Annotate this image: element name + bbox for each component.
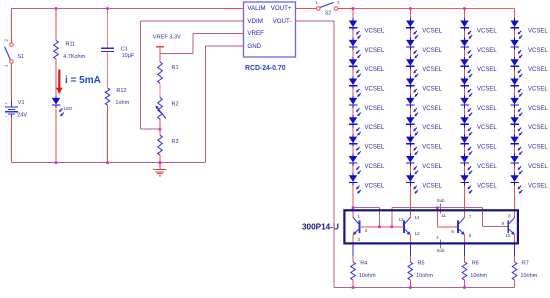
svg-text:VCSEL: VCSEL — [365, 125, 385, 131]
svg-text:VCSEL: VCSEL — [365, 67, 385, 73]
node junction bottom rail LED branch — [55, 161, 58, 164]
label VCSEL D22 — [422, 48, 442, 54]
VCSEL diode D27 — [406, 134, 418, 154]
svg-text:VCSEL: VCSEL — [422, 48, 442, 54]
label VCSEL D44 — [528, 87, 548, 93]
label R7 — [522, 261, 529, 267]
svg-text:VCSEL: VCSEL — [477, 125, 497, 131]
VCSEL diode D31 — [460, 18, 472, 38]
VCSEL diode D24 — [406, 76, 418, 96]
current annotation arrow i — [56, 70, 63, 94]
svg-text:1: 1 — [357, 214, 360, 219]
svg-text:VREF 3.3V: VREF 3.3V — [153, 34, 181, 40]
svg-text:VOUT+: VOUT+ — [271, 5, 292, 12]
label VCSEL D34 — [477, 87, 497, 93]
label VCSEL D26 — [422, 125, 442, 131]
pin number 12 of Q2 — [414, 231, 420, 236]
value label 10ohm R5 — [416, 273, 433, 279]
pin number 9 of Q4 — [502, 221, 505, 226]
VCSEL diode D37 — [460, 134, 472, 154]
wire R3 to bottom rail — [159, 155, 161, 163]
svg-text:S2: S2 — [325, 10, 331, 16]
pin number 2 of S2 — [337, 0, 340, 5]
VCSEL diode D33 — [460, 57, 472, 77]
wire node to R3 — [159, 129, 161, 135]
VCSEL diode D16 — [349, 115, 361, 135]
label S1 — [18, 54, 25, 60]
svg-text:VCSEL: VCSEL — [477, 87, 497, 93]
wire GND net — [206, 46, 238, 163]
label VCSEL D39 — [477, 183, 497, 189]
node junction R2 bottom — [159, 128, 162, 131]
label R5 — [418, 261, 425, 267]
wire S2 to VCSEL rail — [338, 8, 353, 10]
wire S1 to V1 — [11, 63, 13, 103]
wire column3 collector — [464, 208, 466, 218]
VCSEL diode D29 — [406, 173, 418, 193]
wire R6 bottom stub — [464, 280, 466, 288]
pin number 2 of Q1 — [365, 228, 368, 233]
VCSEL diode D21 — [406, 18, 418, 38]
svg-text:LED: LED — [64, 106, 73, 111]
svg-text:13: 13 — [398, 217, 404, 222]
pin stub Sub top pin 11 — [440, 204, 442, 214]
VCSEL diode D49 — [510, 173, 522, 193]
VCSEL diode D23 — [406, 57, 418, 77]
wire VOUT+ to S2 — [302, 8, 317, 10]
value label 10ohm R6 — [470, 273, 487, 279]
svg-text:VCSEL: VCSEL — [422, 164, 442, 170]
wire base rail 1 — [353, 208, 379, 227]
svg-text:GND: GND — [247, 43, 261, 50]
svg-text:VCSEL: VCSEL — [477, 28, 497, 34]
svg-text:VCSEL: VCSEL — [422, 28, 442, 34]
node junction top rail column 2 — [409, 7, 412, 10]
svg-text:10ohm: 10ohm — [416, 273, 433, 279]
wire VCSEL column 1 — [352, 9, 354, 208]
wire base rail 2 — [392, 208, 508, 227]
svg-text:VCSEL: VCSEL — [528, 48, 548, 54]
node junction bottom rail R4 — [352, 286, 355, 289]
label VCSEL D45 — [528, 106, 548, 112]
label LED — [64, 106, 73, 111]
wire R5 top stub — [409, 244, 411, 262]
svg-text:VCSEL: VCSEL — [528, 106, 548, 112]
switch S1 — [5, 43, 14, 64]
LED D1 — [52, 96, 64, 116]
wire R6 top stub — [464, 244, 466, 262]
label VCSEL D17 — [365, 145, 385, 151]
resistor R7 — [512, 262, 517, 280]
node junction base rail Sub — [436, 206, 439, 209]
converter U2 RCD-24-0.70 body — [244, 2, 296, 57]
VCSEL diode D19 — [349, 173, 361, 193]
transistor array U3 300P14-U body — [344, 210, 518, 243]
wire R4 top stub — [352, 244, 354, 262]
VCSEL diode D14 — [349, 76, 361, 96]
label VCSEL D41 — [528, 28, 548, 34]
wire C1 to R12 — [107, 52, 109, 89]
pin stub VOUT+ — [296, 8, 302, 10]
label Sub top — [437, 198, 445, 203]
VCSEL diode D46 — [510, 115, 522, 135]
VCSEL diode D45 — [510, 96, 522, 116]
svg-text:10ohm: 10ohm — [359, 273, 376, 279]
label VCSEL D15 — [365, 106, 385, 112]
label VCSEL D27 — [422, 145, 442, 151]
svg-text:12: 12 — [414, 231, 420, 236]
svg-text:VCSEL: VCSEL — [477, 106, 497, 112]
svg-text:VCSEL: VCSEL — [422, 125, 442, 131]
svg-text:6: 6 — [451, 229, 454, 234]
wire top rail left — [12, 8, 238, 10]
svg-text:R11: R11 — [66, 41, 76, 47]
VCSEL diode D28 — [406, 154, 418, 174]
label VCSEL D25 — [422, 106, 442, 112]
node junction bottom rail R5 — [409, 286, 412, 289]
label VCSEL D29 — [422, 183, 442, 189]
pin name VDIM — [247, 18, 262, 25]
wire R2 to node — [159, 119, 161, 129]
label VCSEL D36 — [477, 125, 497, 131]
pin name VALIM — [247, 5, 265, 12]
svg-text:3: 3 — [357, 237, 360, 242]
svg-text:R6: R6 — [472, 261, 479, 267]
label R11 — [66, 41, 76, 47]
label VCSEL D11 — [365, 28, 385, 34]
label VCSEL D19 — [365, 183, 385, 189]
wire Q2 emitter down — [409, 235, 411, 245]
VCSEL diode D48 — [510, 154, 522, 174]
pin stub VOUT- — [296, 20, 302, 22]
pin number 2 of S1 — [4, 38, 9, 41]
pin number 7 of Q3 — [469, 215, 472, 220]
annotation text i = 5mA — [65, 75, 101, 86]
value label 24V — [17, 112, 27, 118]
svg-text:10ohm: 10ohm — [520, 273, 537, 279]
svg-text:VCSEL: VCSEL — [528, 164, 548, 170]
VCSEL diode D44 — [510, 76, 522, 96]
svg-text:4.7Kohm: 4.7Kohm — [63, 54, 85, 60]
label VCSEL D14 — [365, 87, 385, 93]
node junction base link 2 — [391, 226, 394, 229]
svg-text:VCSEL: VCSEL — [422, 87, 442, 93]
VCSEL diode D32 — [460, 38, 472, 58]
svg-text:VCSEL: VCSEL — [422, 106, 442, 112]
svg-text:VCSEL: VCSEL — [365, 28, 385, 34]
wire R4 bottom stub — [352, 280, 354, 288]
svg-text:-: - — [5, 114, 7, 120]
wire VDIM net — [141, 21, 238, 129]
node junction top rail column 3 — [463, 7, 466, 10]
wire column4 collector — [514, 9, 516, 218]
resistor R3 — [158, 135, 163, 155]
svg-text:VALIM: VALIM — [247, 5, 265, 12]
value label 1ohm — [115, 100, 129, 106]
svg-text:V1: V1 — [18, 100, 25, 106]
pin stub VDIM — [238, 20, 244, 22]
svg-text:VCSEL: VCSEL — [477, 164, 497, 170]
svg-text:i = 5mA: i = 5mA — [65, 75, 101, 86]
label VCSEL D47 — [528, 145, 548, 151]
resistor R11 — [54, 41, 59, 60]
label RCD-24-0.70 — [245, 65, 286, 72]
svg-text:7: 7 — [469, 215, 472, 220]
wire R11 branch top — [55, 9, 57, 41]
label VCSEL D24 — [422, 87, 442, 93]
node VREF 3.3V label — [153, 34, 181, 40]
node junction bottom rail ground — [159, 161, 162, 164]
svg-text:R3: R3 — [172, 139, 179, 145]
VCSEL diode D47 — [510, 134, 522, 154]
pin number 14 of Q2 — [414, 215, 420, 220]
svg-text:R12: R12 — [116, 88, 126, 94]
pin number 6 of Q3 — [451, 229, 454, 234]
label V1 — [18, 100, 25, 106]
svg-text:VCSEL: VCSEL — [477, 67, 497, 73]
svg-text:4: 4 — [436, 235, 439, 240]
value label 10ohm R4 — [359, 273, 376, 279]
svg-text:VCSEL: VCSEL — [528, 28, 548, 34]
wire VCSEL column 2 — [409, 9, 411, 208]
VCSEL diode D34 — [460, 76, 472, 96]
transistor Q3 — [458, 217, 464, 235]
wire LED to bottom rail — [55, 109, 57, 163]
svg-text:S1: S1 — [18, 54, 25, 60]
pin number 13 of Q2 — [398, 217, 404, 222]
pin number 11 — [441, 213, 446, 218]
wire VREF net — [160, 33, 238, 53]
label R4 — [360, 261, 367, 267]
svg-text:Sub: Sub — [437, 248, 445, 253]
transistor Q4 — [508, 217, 514, 235]
svg-text:VCSEL: VCSEL — [365, 145, 385, 151]
VCSEL diode D12 — [349, 38, 361, 58]
label VCSEL D38 — [477, 164, 497, 170]
svg-text:VCSEL: VCSEL — [422, 67, 442, 73]
wire R12 to bottom rail — [107, 105, 109, 163]
label VCSEL D18 — [365, 164, 385, 170]
VCSEL diode D18 — [349, 154, 361, 174]
VCSEL diode D26 — [406, 115, 418, 135]
svg-text:VOUT-: VOUT- — [273, 18, 292, 25]
node junction top rail column 1 — [352, 7, 355, 10]
transistor Q2 — [404, 217, 410, 235]
capacitor C1 — [101, 48, 114, 51]
wire R11 to LED — [55, 59, 57, 98]
svg-text:14: 14 — [414, 215, 420, 220]
svg-text:RCD-24-0.70: RCD-24-0.70 — [245, 65, 286, 72]
wire Q1 emitter down — [352, 235, 354, 245]
svg-text:VCSEL: VCSEL — [477, 145, 497, 151]
wire VOUT- net — [302, 21, 335, 287]
VCSEL diode D11 — [349, 18, 361, 38]
svg-text:VCSEL: VCSEL — [422, 145, 442, 151]
svg-text:VCSEL: VCSEL — [528, 67, 548, 73]
wire Q1-Q2 base link — [361, 226, 403, 228]
value label 10µF — [122, 53, 135, 59]
label VCSEL D21 — [422, 28, 442, 34]
svg-text:VCSEL: VCSEL — [477, 48, 497, 54]
label R3 — [172, 139, 179, 145]
wire column1 collector — [352, 208, 354, 218]
value label 10ohm R7 — [520, 273, 537, 279]
svg-text:VCSEL: VCSEL — [528, 145, 548, 151]
svg-text:1ohm: 1ohm — [115, 100, 129, 106]
pin name VOUT+ — [271, 5, 292, 12]
label VCSEL D13 — [365, 67, 385, 73]
label R12 — [116, 88, 126, 94]
label VCSEL D37 — [477, 145, 497, 151]
VCSEL diode D38 — [460, 154, 472, 174]
svg-text:11: 11 — [441, 213, 446, 218]
wire Q4 emitter down — [514, 235, 516, 245]
svg-text:R1: R1 — [172, 65, 179, 71]
resistor R4 — [351, 262, 356, 280]
VCSEL diode D43 — [510, 57, 522, 77]
wire Q3 emitter down — [464, 235, 466, 245]
transistor Q1 — [353, 217, 359, 235]
svg-text:VCSEL: VCSEL — [528, 87, 548, 93]
svg-text:C1: C1 — [121, 46, 128, 52]
resistor R5 — [408, 262, 413, 280]
label VCSEL D48 — [528, 164, 548, 170]
pin name GND — [247, 43, 261, 50]
pin number 1 of S2 — [315, 0, 318, 5]
pin stub VALIM — [238, 8, 244, 10]
switch S2 — [317, 2, 338, 10]
svg-text:VCSEL: VCSEL — [477, 183, 497, 189]
svg-text:R2: R2 — [172, 101, 179, 107]
VCSEL diode D39 — [460, 173, 472, 193]
potentiometer R2 — [156, 98, 166, 120]
pin name VREF — [247, 30, 264, 37]
VCSEL diode D13 — [349, 57, 361, 77]
wire R5 bottom stub — [409, 280, 411, 288]
wire C1 branch top — [107, 9, 109, 49]
VCSEL diode D25 — [406, 96, 418, 116]
label 300P14-U — [302, 222, 339, 231]
ground — [153, 163, 166, 177]
wire R7 bottom stub — [514, 280, 516, 288]
node junction column1 base rail — [352, 206, 355, 209]
svg-text:R4: R4 — [360, 261, 367, 267]
svg-text:10: 10 — [505, 233, 511, 238]
svg-text:VCSEL: VCSEL — [528, 125, 548, 131]
label VCSEL D31 — [477, 28, 497, 34]
pin stub VREF — [238, 32, 244, 34]
svg-text:2: 2 — [365, 228, 368, 233]
svg-text:VCSEL: VCSEL — [365, 106, 385, 112]
pin name VOUT- — [273, 18, 292, 25]
pin number 3 of Q1 — [357, 237, 360, 242]
label R2 — [172, 101, 179, 107]
svg-text:9: 9 — [502, 221, 505, 226]
svg-text:24V: 24V — [17, 112, 27, 118]
node junction bottom rail R6 — [463, 286, 466, 289]
pin number 1 of Q1 — [357, 214, 360, 219]
VCSEL diode D15 — [349, 96, 361, 116]
svg-text:8: 8 — [508, 214, 511, 219]
node junction top rail C1 branch — [106, 7, 109, 10]
label VCSEL D46 — [528, 125, 548, 131]
svg-text:10ohm: 10ohm — [470, 273, 487, 279]
wire column2 collector — [409, 208, 411, 218]
wire R7 top stub — [514, 244, 516, 262]
svg-text:VDIM: VDIM — [247, 18, 262, 25]
wire VCSEL column 4 — [514, 9, 516, 208]
label VCSEL D49 — [528, 183, 548, 189]
label VCSEL D12 — [365, 48, 385, 54]
wire bottom rail left — [12, 162, 206, 164]
pin stub GND — [238, 45, 244, 47]
resistor R12 — [105, 88, 110, 105]
svg-text:VCSEL: VCSEL — [528, 183, 548, 189]
label VCSEL D43 — [528, 67, 548, 73]
svg-text:10µF: 10µF — [122, 53, 135, 59]
wire left rail upper (to S1) — [11, 9, 13, 43]
pin number 10 of Q4 — [505, 233, 511, 238]
label VCSEL D32 — [477, 48, 497, 54]
svg-text:VCSEL: VCSEL — [365, 48, 385, 54]
svg-text:Sub: Sub — [437, 198, 445, 203]
VCSEL diode D22 — [406, 38, 418, 58]
node junction top rail R11 branch — [55, 7, 58, 10]
label VCSEL D28 — [422, 164, 442, 170]
label C1 — [121, 46, 128, 52]
VCSEL diode D17 — [349, 134, 361, 154]
svg-text:VREF: VREF — [247, 30, 264, 37]
svg-text:VCSEL: VCSEL — [365, 164, 385, 170]
label VCSEL D16 — [365, 125, 385, 131]
svg-text:+: + — [5, 101, 8, 106]
label S2 — [325, 10, 331, 16]
pin number 4 — [436, 235, 439, 240]
pin number 1 of S1 — [4, 64, 9, 67]
svg-text:VCSEL: VCSEL — [422, 183, 442, 189]
label R1 — [172, 65, 179, 71]
value label 4.7Kohm — [63, 54, 85, 60]
label Sub bottom — [437, 248, 445, 253]
svg-text:VCSEL: VCSEL — [365, 183, 385, 189]
wire Q3 base drop — [437, 208, 457, 227]
label VCSEL D33 — [477, 67, 497, 73]
node VREF tick — [156, 46, 164, 48]
label VCSEL D42 — [528, 48, 548, 54]
battery V1 — [5, 101, 18, 120]
wire VCSEL top rail — [353, 8, 515, 10]
svg-text:R5: R5 — [418, 261, 425, 267]
wire VREF node to R1 — [159, 47, 161, 62]
svg-text:300P14-U: 300P14-U — [302, 222, 339, 231]
svg-text:VCSEL: VCSEL — [365, 87, 385, 93]
wire V1 to bottom rail — [11, 117, 13, 162]
svg-text:5: 5 — [469, 233, 472, 238]
wire VCSEL column 3 — [464, 9, 466, 208]
label VCSEL D23 — [422, 67, 442, 73]
wire bottom return rail — [334, 287, 515, 289]
pin stub Sub bottom pin 4 — [440, 240, 442, 249]
VCSEL diode D35 — [460, 96, 472, 116]
pin number 8 of Q4 — [508, 214, 511, 219]
label R6 — [472, 261, 479, 267]
node junction bottom rail R12 branch — [106, 161, 109, 164]
pin number 5 of Q3 — [469, 233, 472, 238]
svg-text:R7: R7 — [522, 261, 529, 267]
VCSEL diode D36 — [460, 115, 472, 135]
VCSEL diode D42 — [510, 38, 522, 58]
node junction base link 1 — [378, 226, 381, 229]
